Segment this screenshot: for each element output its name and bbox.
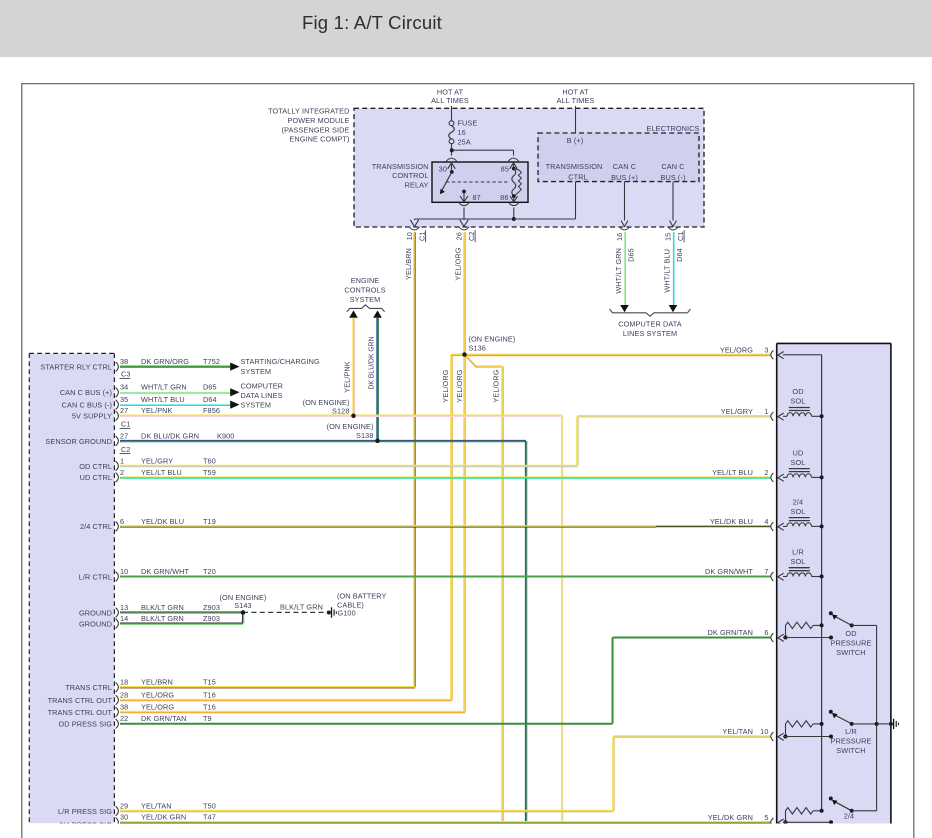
node: splice S138 (redraw) bbox=[375, 439, 379, 443]
svg-text:C2: C2 bbox=[121, 445, 131, 454]
svg-text:WHT/LT GRN: WHT/LT GRN bbox=[141, 383, 187, 392]
svg-text:OD CTRL: OD CTRL bbox=[79, 462, 112, 471]
svg-text:SYSTEM: SYSTEM bbox=[241, 367, 272, 376]
wire: fuse output to relay pins 30 and 85 bbox=[451, 144, 453, 156]
switch open contact bbox=[829, 611, 833, 615]
case ground (transmission) bbox=[889, 722, 893, 726]
svg-text:POWER MODULE: POWER MODULE bbox=[287, 116, 349, 125]
svg-text:YEL/DK BLU: YEL/DK BLU bbox=[710, 517, 753, 526]
svg-text:(ON ENGINE): (ON ENGINE) bbox=[327, 422, 374, 431]
svg-text:30: 30 bbox=[439, 164, 447, 173]
svg-text:L/R: L/R bbox=[792, 548, 804, 557]
svg-text:22: 22 bbox=[120, 714, 128, 723]
svg-text:87: 87 bbox=[473, 193, 481, 202]
svg-text:YEL/ORG: YEL/ORG bbox=[441, 369, 450, 402]
switch contact (sense) bbox=[783, 736, 831, 738]
svg-text:T752: T752 bbox=[203, 357, 220, 366]
relay coil (85-86) bbox=[512, 167, 516, 171]
svg-text:85: 85 bbox=[501, 164, 509, 173]
wire: battery feed into fuse bbox=[451, 106, 453, 121]
svg-text:SOL: SOL bbox=[791, 557, 806, 566]
svg-text:YEL/TAN: YEL/TAN bbox=[722, 727, 753, 736]
arrow: DK BLU/DK GRN to engine controls bbox=[373, 310, 382, 317]
svg-text:SOL: SOL bbox=[791, 507, 806, 516]
wire: YEL/PNK F856 from PCM through S128 then down bbox=[120, 414, 562, 416]
svg-text:CAN C BUS (-): CAN C BUS (-) bbox=[62, 400, 112, 409]
svg-text:2: 2 bbox=[764, 468, 768, 477]
svg-text:YEL/GRY: YEL/GRY bbox=[721, 407, 753, 416]
svg-text:PRESSURE: PRESSURE bbox=[831, 736, 872, 745]
svg-text:27: 27 bbox=[120, 431, 128, 440]
svg-text:Z903: Z903 bbox=[203, 614, 220, 623]
node: splice S143 bbox=[241, 610, 245, 614]
svg-text:YEL/ORG: YEL/ORG bbox=[141, 702, 174, 711]
svg-text:ALL TIMES: ALL TIMES bbox=[431, 96, 469, 105]
switch open contact bbox=[829, 797, 833, 801]
connector arc: TIPM pin 15 C1 bbox=[668, 227, 678, 230]
svg-text:GROUND: GROUND bbox=[79, 619, 112, 628]
wire: relay 86 to coil return bus bbox=[513, 208, 515, 220]
svg-text:13: 13 bbox=[120, 603, 128, 612]
wire: BLK/LT GRN Z903 pin13 to S143 bbox=[120, 611, 243, 613]
switch blade bbox=[834, 616, 852, 625]
resistor (pressure switch bleed) bbox=[786, 808, 814, 814]
svg-text:B (+): B (+) bbox=[567, 136, 584, 145]
svg-text:DK BLU/DK GRN: DK BLU/DK GRN bbox=[141, 431, 199, 440]
pin: PCM 22 OD PRESS SIG bbox=[116, 719, 119, 729]
svg-text:S136: S136 bbox=[469, 344, 486, 353]
svg-text:6: 6 bbox=[764, 628, 768, 637]
pin: PCM 38 STARTER RLY CTRL bbox=[116, 362, 119, 372]
svg-text:35: 35 bbox=[120, 395, 128, 404]
wire: YEL/TAN T50 to L/R pressure switch bbox=[120, 809, 614, 811]
svg-text:86: 86 bbox=[500, 193, 508, 202]
wire: battery feed to electronics B(+) bbox=[575, 106, 577, 133]
relay pin 86 lead with chevron bbox=[513, 196, 515, 201]
relay actuator dashed link bbox=[446, 181, 510, 183]
svg-text:OD: OD bbox=[792, 387, 803, 396]
pin: PCM 29 L/R PRESS SIG bbox=[116, 806, 119, 816]
pin: PCM 28 TRANS CTRL OUT bbox=[116, 695, 119, 705]
wire: YEL/PNK riser from S128 bbox=[352, 318, 354, 416]
svg-text:C1: C1 bbox=[676, 231, 685, 241]
svg-text:TOTALLY INTEGRATED: TOTALLY INTEGRATED bbox=[268, 107, 349, 116]
svg-text:4: 4 bbox=[764, 517, 768, 526]
node: splice S136 (redraw) bbox=[462, 352, 466, 356]
svg-text:T47: T47 bbox=[203, 813, 216, 822]
svg-text:25A: 25A bbox=[458, 137, 471, 146]
svg-text:Z903: Z903 bbox=[203, 603, 220, 612]
pin: PCM 27 5V SUPPLY bbox=[116, 411, 119, 421]
svg-text:OD: OD bbox=[845, 629, 856, 638]
svg-text:DK GRN/TAN: DK GRN/TAN bbox=[141, 714, 186, 723]
pin: solenoid pack 2 YEL/LT BLU bbox=[771, 473, 774, 482]
svg-text:BUS (-): BUS (-) bbox=[660, 173, 685, 182]
switch contact (sense) bbox=[783, 637, 831, 639]
pin: solenoid pack 7 DK GRN/WHT bbox=[771, 572, 774, 581]
wire: CAN C bus (+) down to TIPM pin 16 bbox=[624, 182, 626, 221]
svg-text:K900: K900 bbox=[217, 431, 234, 440]
pin: PCM 38 TRANS CTRL OUT bbox=[116, 707, 119, 717]
svg-text:10: 10 bbox=[760, 727, 768, 736]
svg-text:DK GRN/ORG: DK GRN/ORG bbox=[141, 357, 189, 366]
pin: PCM 34 CAN C BUS (+) bbox=[116, 388, 119, 398]
svg-text:Fig 1: A/T Circuit: Fig 1: A/T Circuit bbox=[302, 12, 442, 33]
wire: DK GRN/TAN T9 to OD pressure switch bbox=[120, 723, 613, 725]
svg-text:(PASSENGER SIDE: (PASSENGER SIDE bbox=[282, 125, 350, 134]
pin: PCM 30 2/4 PRESS SIG bbox=[116, 818, 119, 828]
svg-text:T15: T15 bbox=[203, 678, 216, 687]
svg-text:S128: S128 bbox=[332, 407, 349, 416]
svg-text:GROUND: GROUND bbox=[79, 608, 112, 617]
svg-text:COMPUTER DATA: COMPUTER DATA bbox=[618, 319, 681, 328]
svg-text:YEL/DK GRN: YEL/DK GRN bbox=[141, 813, 186, 822]
svg-text:38: 38 bbox=[120, 357, 128, 366]
node: relay common 30 bbox=[450, 170, 454, 174]
svg-text:28: 28 bbox=[120, 690, 128, 699]
module: ELECTRONICS inner box bbox=[538, 133, 699, 182]
svg-text:(ON ENGINE): (ON ENGINE) bbox=[303, 398, 350, 407]
svg-text:1: 1 bbox=[764, 407, 768, 416]
svg-text:SWITCH: SWITCH bbox=[836, 746, 865, 755]
svg-text:TRANS CTRL: TRANS CTRL bbox=[65, 683, 112, 692]
relay K1: transmission control relay box bbox=[432, 162, 528, 202]
arrow: computer data lines system (from PCM -) bbox=[230, 401, 239, 409]
svg-text:T20: T20 bbox=[203, 567, 216, 576]
svg-text:UD CTRL: UD CTRL bbox=[80, 473, 112, 482]
svg-text:YEL/BRN: YEL/BRN bbox=[141, 678, 173, 687]
node: UD sol to bus bbox=[820, 475, 824, 479]
svg-text:T9: T9 bbox=[203, 714, 212, 723]
svg-text:10: 10 bbox=[120, 567, 128, 576]
svg-text:YEL/PNK: YEL/PNK bbox=[342, 361, 351, 393]
node: relay pin 87 bbox=[462, 190, 466, 194]
wire: YEL/ORG S136 to solenoid pack pin 3 bbox=[465, 353, 771, 355]
svg-text:5V SUPPLY: 5V SUPPLY bbox=[72, 412, 112, 421]
connector arc: TIPM pin 26 C2 bbox=[459, 227, 469, 230]
pin: pressure switch 5 YEL/DK GRN bbox=[771, 818, 774, 827]
node: splice S128 bbox=[351, 414, 355, 418]
node: splice S136 bbox=[462, 352, 466, 356]
svg-text:WHT/LT GRN: WHT/LT GRN bbox=[614, 248, 623, 294]
wire: YEL/ORG S136 left branch down to PCM pin 28 bbox=[452, 353, 465, 355]
svg-text:T16: T16 bbox=[203, 690, 216, 699]
svg-text:C1: C1 bbox=[417, 231, 426, 241]
node: L/R sol to bus bbox=[820, 575, 824, 579]
pin: PCM 6 2/4 CTRL bbox=[116, 522, 119, 532]
module M3: transmission solenoid/pressure switch assembly box bbox=[777, 343, 891, 823]
svg-text:WHT/LT BLU: WHT/LT BLU bbox=[141, 395, 185, 404]
svg-text:YEL/ORG: YEL/ORG bbox=[455, 369, 464, 402]
svg-text:UD: UD bbox=[793, 448, 804, 457]
svg-text:T59: T59 bbox=[203, 468, 216, 477]
svg-text:D65: D65 bbox=[203, 383, 217, 392]
connector arc: relay pin 30 entry bbox=[446, 158, 456, 161]
svg-text:TRANS CTRL OUT: TRANS CTRL OUT bbox=[48, 708, 113, 717]
wire: YEL/ORG from TIPM pin 26 to splice S136 bbox=[463, 232, 465, 354]
node: splice S138 bbox=[375, 439, 379, 443]
svg-text:L/R: L/R bbox=[845, 727, 857, 736]
relay pin 85 lead with chevron bbox=[513, 164, 515, 169]
svg-text:STARTER RLY CTRL: STARTER RLY CTRL bbox=[40, 363, 112, 372]
svg-text:2/4 CTRL: 2/4 CTRL bbox=[80, 522, 112, 531]
svg-text:26: 26 bbox=[454, 232, 463, 240]
arrow: computer data lines system (from PCM +) bbox=[230, 388, 239, 396]
node: 2/4 sol to bus bbox=[820, 524, 824, 528]
svg-text:YEL/LT BLU: YEL/LT BLU bbox=[141, 468, 182, 477]
svg-text:YEL/LT BLU: YEL/LT BLU bbox=[712, 468, 753, 477]
svg-text:DATA LINES: DATA LINES bbox=[241, 391, 283, 400]
wire: YEL/DK GRN T47 to 2/4 pressure switch bbox=[120, 821, 771, 823]
wire: YEL/LT BLU T59 to UD solenoid bbox=[120, 476, 771, 478]
header bar bbox=[0, 0, 932, 57]
svg-text:S143: S143 bbox=[234, 601, 251, 610]
resistor (pressure switch bleed) bbox=[786, 622, 814, 628]
svg-text:RELAY: RELAY bbox=[405, 181, 429, 190]
wire: WHT/LT BLU D64 stub bbox=[120, 403, 231, 405]
resistor (pressure switch bleed) bbox=[786, 721, 814, 727]
switch open contact bbox=[829, 710, 833, 714]
switch contact (sense) bbox=[783, 821, 831, 823]
svg-text:16: 16 bbox=[615, 233, 624, 241]
svg-text:F856: F856 bbox=[203, 406, 220, 415]
svg-text:YEL/GRY: YEL/GRY bbox=[141, 456, 173, 465]
module M1: Totally Integrated Power Module box bbox=[354, 108, 704, 227]
pin: solenoid pack 1 YEL/GRY bbox=[771, 412, 774, 421]
svg-text:CONTROLS: CONTROLS bbox=[344, 285, 385, 294]
pin: PCM 2 UD CTRL bbox=[116, 473, 119, 483]
connector arc: relay pin 87 exit bbox=[459, 203, 469, 206]
svg-text:CAN C: CAN C bbox=[613, 162, 636, 171]
svg-text:5: 5 bbox=[764, 813, 768, 822]
svg-text:6: 6 bbox=[120, 517, 124, 526]
svg-text:18: 18 bbox=[120, 678, 128, 687]
svg-text:ELECTRONICS: ELECTRONICS bbox=[647, 124, 700, 133]
node: coil bottom 86 bbox=[512, 194, 516, 198]
node: splice S143 (redraw) bbox=[241, 610, 245, 614]
wire: coil return run (to pin 10 and transmission ctrl) bbox=[415, 218, 576, 220]
svg-text:1: 1 bbox=[120, 456, 124, 465]
pin: solenoid pack 3 YEL/ORG bbox=[771, 350, 774, 359]
connector arc: TIPM pin 10 C1 bbox=[409, 227, 419, 230]
svg-text:YEL/ORG: YEL/ORG bbox=[141, 690, 174, 699]
pin: pressure switch 10 YEL/TAN bbox=[771, 732, 774, 741]
pin: PCM 35 CAN C BUS (-) bbox=[116, 400, 119, 410]
connector arc: relay pin 86 exit bbox=[509, 203, 519, 206]
svg-text:YEL/DK BLU: YEL/DK BLU bbox=[141, 517, 184, 526]
svg-text:DK GRN/TAN: DK GRN/TAN bbox=[708, 628, 753, 637]
svg-text:TRANS CTRL OUT: TRANS CTRL OUT bbox=[48, 696, 113, 705]
wire: DK BLU/DK GRN riser from S138 bbox=[376, 318, 378, 441]
switch blade bbox=[834, 801, 852, 811]
svg-text:C1: C1 bbox=[121, 420, 131, 429]
arrow: YEL/PNK to engine controls bbox=[349, 310, 358, 317]
svg-text:G100: G100 bbox=[338, 609, 356, 618]
svg-text:TRANSMISSION: TRANSMISSION bbox=[372, 162, 429, 171]
brace: engine controls system bbox=[347, 305, 385, 312]
pin: PCM 1 OD CTRL bbox=[116, 461, 119, 471]
wire: BLK/LT GRN to ground G100 (dashed) bbox=[243, 611, 327, 613]
switch blade bbox=[834, 715, 852, 724]
pin: PCM 27 SENSOR GROUND bbox=[116, 436, 119, 446]
node: L/R switch to rail bbox=[875, 722, 879, 726]
arrow: starting/charging system bbox=[230, 363, 239, 371]
svg-text:PRESSURE: PRESSURE bbox=[831, 639, 872, 648]
svg-text:(ON ENGINE): (ON ENGINE) bbox=[469, 335, 516, 344]
pin: solenoid pack 4 YEL/DK BLU bbox=[771, 522, 774, 531]
svg-text:YEL/ORG: YEL/ORG bbox=[453, 247, 462, 280]
internal supply bus bbox=[821, 355, 823, 811]
svg-text:YEL/DK GRN: YEL/DK GRN bbox=[708, 813, 753, 822]
connector arc: relay pin 85 entry bbox=[508, 158, 518, 161]
node: coil return junction bbox=[512, 217, 516, 221]
wire: CAN C bus (-) down to TIPM pin 15 bbox=[672, 182, 674, 221]
wire: WHT/LT GRN D65 stub bbox=[120, 391, 231, 393]
svg-text:SOL: SOL bbox=[791, 458, 806, 467]
connector arc: TIPM pin 16 bbox=[619, 227, 629, 230]
wire: WHT/LT GRN D65 to computer data lines bbox=[623, 232, 625, 305]
svg-text:C3: C3 bbox=[121, 370, 131, 379]
svg-text:STARTING/CHARGING: STARTING/CHARGING bbox=[241, 357, 320, 366]
module M2: PCM box bbox=[29, 353, 114, 823]
svg-text:C2: C2 bbox=[467, 231, 476, 241]
svg-text:DK BLU/DK GRN: DK BLU/DK GRN bbox=[366, 337, 375, 390]
svg-text:YEL/ORG: YEL/ORG bbox=[491, 369, 500, 402]
svg-text:15: 15 bbox=[663, 233, 672, 241]
svg-text:14: 14 bbox=[120, 614, 128, 623]
svg-text:ALL TIMES: ALL TIMES bbox=[557, 96, 595, 105]
svg-text:27: 27 bbox=[120, 406, 128, 415]
pin: PCM 10 L/R CTRL bbox=[116, 572, 119, 582]
svg-text:ENGINE: ENGINE bbox=[351, 276, 380, 285]
wire: transmission ctrl riser bbox=[575, 182, 577, 219]
svg-text:COMPUTER: COMPUTER bbox=[241, 382, 284, 391]
svg-text:BLK/LT GRN: BLK/LT GRN bbox=[280, 603, 323, 612]
svg-text:16: 16 bbox=[458, 128, 466, 137]
svg-text:2: 2 bbox=[120, 468, 124, 477]
svg-text:10: 10 bbox=[405, 232, 414, 240]
svg-text:CTRL: CTRL bbox=[568, 172, 587, 181]
pin: pressure switch 6 DK GRN/TAN bbox=[771, 633, 774, 642]
wire: YEL/ORG S136 below splice to PCM pin 38 bbox=[463, 355, 465, 712]
brace: computer data lines system bbox=[610, 309, 691, 316]
wire: DK BLU/DK GRN K900 through S138 then down bbox=[120, 439, 526, 441]
node: OD sol to bus bbox=[820, 414, 824, 418]
wire: DK GRN/WHT T20 to L/R solenoid bbox=[120, 576, 771, 578]
svg-text:YEL/ORG: YEL/ORG bbox=[720, 345, 753, 354]
svg-text:OD PRESS SIG: OD PRESS SIG bbox=[58, 720, 112, 729]
svg-text:WHT/LT BLU: WHT/LT BLU bbox=[662, 249, 671, 293]
node: splice S128 (redraw) bbox=[351, 414, 355, 418]
relay switch blade (30 to 87) bbox=[441, 172, 452, 192]
fuse F1: FUSE 16 25A bbox=[449, 121, 454, 126]
arrow: computer data lines (-) bbox=[669, 305, 678, 312]
svg-text:D65: D65 bbox=[626, 248, 635, 262]
wire: YEL/ORG S136 diagonal branch down (to transmission range sensor) bbox=[465, 354, 503, 366]
svg-text:T16: T16 bbox=[203, 702, 216, 711]
svg-text:DK GRN/WHT: DK GRN/WHT bbox=[705, 567, 753, 576]
svg-text:S138: S138 bbox=[356, 431, 373, 440]
svg-text:D64: D64 bbox=[203, 395, 217, 404]
right rail (switch common) bbox=[876, 625, 878, 810]
svg-text:29: 29 bbox=[120, 801, 128, 810]
svg-text:T60: T60 bbox=[203, 456, 216, 465]
node: fuse output junction bbox=[450, 148, 454, 152]
wire: YEL/BRN from TIPM pin 10 to PCM pin 18 bbox=[413, 232, 415, 687]
svg-text:BLK/LT GRN: BLK/LT GRN bbox=[141, 614, 184, 623]
svg-text:BLK/LT GRN: BLK/LT GRN bbox=[141, 603, 184, 612]
relay pin 87 lead with chevron bbox=[463, 192, 465, 202]
svg-text:T50: T50 bbox=[203, 801, 216, 810]
svg-text:SYSTEM: SYSTEM bbox=[241, 401, 272, 410]
wire: YEL/GRY T60 to OD solenoid bbox=[120, 464, 578, 466]
svg-text:BUS (+): BUS (+) bbox=[611, 173, 638, 182]
svg-text:3: 3 bbox=[764, 345, 768, 354]
wire: relay 87 output down to TIPM pin 26 bbox=[463, 208, 465, 221]
wire: WHT/LT BLU D64 to computer data lines bbox=[671, 232, 673, 305]
svg-text:YEL/BRN: YEL/BRN bbox=[404, 248, 413, 280]
scan crop at bottom edge bbox=[23, 824, 911, 838]
svg-text:YEL/PNK: YEL/PNK bbox=[141, 406, 173, 415]
arrow: computer data lines (+) bbox=[620, 305, 629, 312]
svg-text:T19: T19 bbox=[203, 517, 216, 526]
svg-text:CONTROL: CONTROL bbox=[392, 171, 428, 180]
svg-text:2/4: 2/4 bbox=[793, 497, 803, 506]
svg-text:L/R CTRL: L/R CTRL bbox=[79, 572, 112, 581]
wire: YEL/DK BLU T19 to 2/4 solenoid bbox=[120, 525, 656, 527]
svg-text:SOL: SOL bbox=[791, 397, 806, 406]
svg-text:(ON BATTERY: (ON BATTERY bbox=[337, 591, 387, 600]
svg-text:34: 34 bbox=[120, 383, 128, 392]
ground G100 bbox=[327, 611, 331, 615]
svg-text:FUSE: FUSE bbox=[458, 118, 478, 127]
svg-text:D64: D64 bbox=[675, 248, 684, 262]
svg-text:ENGINE COMPT): ENGINE COMPT) bbox=[289, 135, 349, 144]
svg-text:TRANSMISSION: TRANSMISSION bbox=[546, 162, 603, 171]
svg-text:L/R PRESS SIG: L/R PRESS SIG bbox=[58, 807, 112, 816]
svg-text:SWITCH: SWITCH bbox=[836, 648, 865, 657]
pin: PCM 14 GROUND bbox=[116, 619, 119, 629]
wire: BLK/LT GRN Z903 pin14 to S143 bbox=[120, 622, 243, 624]
pin: PCM 18 TRANS CTRL bbox=[116, 683, 119, 693]
relay pin 30 lead with chevron bbox=[451, 164, 453, 172]
wire: DK GRN/ORG T752 to starting/charging system bbox=[120, 365, 231, 367]
svg-text:YEL/TAN: YEL/TAN bbox=[141, 801, 172, 810]
svg-text:LINES SYSTEM: LINES SYSTEM bbox=[623, 329, 677, 338]
svg-text:30: 30 bbox=[120, 813, 128, 822]
svg-text:2/4: 2/4 bbox=[844, 811, 854, 820]
svg-text:SYSTEM: SYSTEM bbox=[350, 295, 381, 304]
svg-text:DK GRN/WHT: DK GRN/WHT bbox=[141, 567, 189, 576]
pin: PCM 13 GROUND bbox=[116, 608, 119, 618]
svg-text:CAN C: CAN C bbox=[661, 162, 684, 171]
svg-text:38: 38 bbox=[120, 702, 128, 711]
svg-text:CAN C BUS (+): CAN C BUS (+) bbox=[60, 388, 112, 397]
wire: rail to case ground bbox=[877, 723, 889, 725]
svg-text:SENSOR GROUND: SENSOR GROUND bbox=[45, 437, 112, 446]
svg-text:7: 7 bbox=[764, 567, 768, 576]
